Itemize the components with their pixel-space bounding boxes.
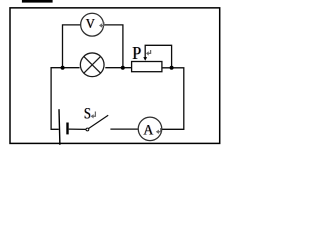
switch S pivot	[86, 128, 89, 131]
formatting mark after V	[99, 22, 104, 28]
node junction dot at slider return	[170, 66, 174, 70]
svg-text:P: P	[132, 43, 141, 63]
wire voltmeter left branch	[63, 25, 81, 68]
label V	[85, 15, 96, 31]
voltmeter V	[81, 13, 104, 36]
label P	[132, 43, 142, 63]
node junction dot right of lamp	[121, 66, 125, 70]
ammeter A	[138, 117, 162, 141]
cropped black bar at top	[22, 0, 53, 3]
wire battery to switch	[69, 128, 86, 130]
battery short thick plate	[66, 123, 68, 135]
formatting mark after P	[146, 50, 151, 56]
rheostat P body	[132, 62, 162, 72]
switch S lever	[89, 115, 109, 128]
svg-text:S: S	[84, 105, 91, 123]
wire lamp row left + left vertical branch to battery	[51, 68, 80, 130]
label S	[83, 105, 91, 123]
wire lamp to rheostat	[105, 67, 131, 69]
svg-text:A: A	[143, 122, 154, 139]
wire rheostat right to right branch down to ammeter	[162, 68, 184, 130]
svg-text:V: V	[86, 15, 96, 31]
node junction dot left (voltmeter tap)	[61, 66, 65, 70]
wire voltmeter right branch	[104, 25, 123, 68]
wire switch to ammeter	[110, 128, 138, 130]
lamp	[80, 53, 104, 77]
label A	[143, 122, 155, 139]
formatting mark after S	[91, 112, 96, 119]
battery long plate	[58, 109, 61, 145]
rheostat slider wire with arrow	[143, 45, 171, 68]
formatting mark after A	[156, 128, 161, 134]
